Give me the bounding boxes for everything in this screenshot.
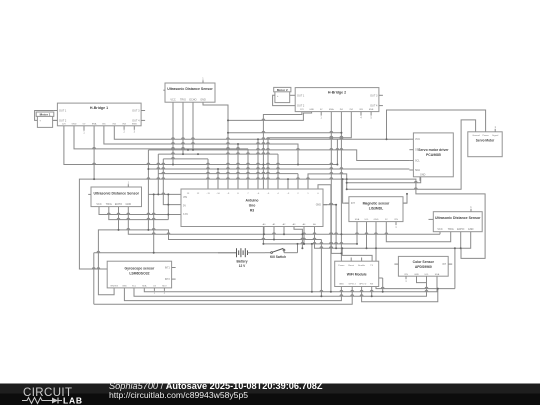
wire WiFi RX drop xyxy=(371,287,373,297)
svg-text:PCA9685: PCA9685 xyxy=(426,153,441,157)
svg-text:OUT 3: OUT 3 xyxy=(132,110,140,113)
svg-text:VCC: VCC xyxy=(96,203,101,206)
svg-text:GND: GND xyxy=(316,204,322,207)
wire H-Bridge 1 5V stub xyxy=(83,126,85,131)
svg-text:Reset: Reset xyxy=(348,264,354,267)
switch SW1 "Kill Switch" xyxy=(265,248,298,258)
svg-text:Ultrasonic Distance Sensor: Ultrasonic Distance Sensor xyxy=(435,216,481,220)
wire rail D13 net to servo SCL xyxy=(148,150,409,161)
wire battery minus rail xyxy=(94,252,237,254)
motor M2 "Motor 2" xyxy=(274,87,291,102)
wire servo power loop xyxy=(387,110,486,139)
wire color sensor GND SCL bridge xyxy=(417,276,427,282)
wire H-Bridge 1 ENB stub xyxy=(133,126,135,130)
wire magnetic VIN stub xyxy=(395,222,397,226)
wire ultrasonic top ECHO drop xyxy=(192,102,194,150)
svg-text:GPIO 0: GPIO 0 xyxy=(359,284,367,286)
wire pin1 staircase to servo GND xyxy=(308,174,347,189)
wire motor2 wrap to OUT2 xyxy=(273,95,296,105)
svg-text:APDS9960: APDS9960 xyxy=(415,265,432,269)
svg-text:VCC: VCC xyxy=(415,138,420,141)
wire WiFi TX riser xyxy=(342,248,372,261)
footer bar xyxy=(0,384,540,405)
svg-text:SDA: SDA xyxy=(415,169,420,172)
wire riser D7 xyxy=(247,149,249,189)
svg-text:GND: GND xyxy=(468,228,474,231)
wire Arduino VIN line xyxy=(148,193,181,195)
wire gyro SCL bus xyxy=(134,283,427,297)
ultrasonic distance sensor U8 (right) xyxy=(429,206,483,232)
wire riser D10 xyxy=(217,169,219,189)
wire ultrasonic right ECHO xyxy=(460,232,462,249)
svg-text:ENA: ENA xyxy=(329,108,334,111)
svg-text:ENA: ENA xyxy=(92,122,97,125)
svg-text:VIN: VIN xyxy=(183,196,187,199)
svg-text:LSM6DSO32: LSM6DSO32 xyxy=(129,272,149,276)
color sensor U11 APDS9960 xyxy=(394,256,452,283)
svg-text:VIN: VIN xyxy=(404,274,408,276)
svg-text:LAB: LAB xyxy=(63,396,83,405)
svg-text:VCC: VCC xyxy=(437,228,442,231)
wire A2 drop xyxy=(283,227,285,235)
microcontroller U6 Arduino Uno R3 xyxy=(181,189,327,227)
wire ultrasonic top TRIG drop xyxy=(182,102,184,154)
svg-text:Kill Switch: Kill Switch xyxy=(270,255,286,259)
H-bridge driver U3 "H-Bridge 2" xyxy=(295,88,383,120)
svg-text:INT1: INT1 xyxy=(165,267,171,269)
svg-text:Ground: Ground xyxy=(472,134,480,137)
wire vertical 168.3 xyxy=(167,194,169,219)
wire bottom rail outer xyxy=(94,287,352,305)
svg-text:Servo Motor: Servo Motor xyxy=(476,139,495,143)
svg-text:GND: GND xyxy=(72,123,77,125)
svg-text:ECHO: ECHO xyxy=(115,203,122,206)
wire A5 SCL drop xyxy=(315,227,471,249)
wire motor1 wrap to OUT1 xyxy=(35,111,54,121)
svg-text:SDA: SDA xyxy=(142,284,147,287)
H-bridge driver U2 "H-Bridge 1" xyxy=(53,103,145,126)
wire battery positive rail xyxy=(263,243,357,245)
wire H-Bridge 1 GND rail xyxy=(74,126,248,149)
wire SCL link riser xyxy=(320,240,322,297)
svg-text:OUT 4: OUT 4 xyxy=(370,105,378,108)
wire 12V riser to battery xyxy=(262,165,264,244)
svg-text:Color Sensor: Color Sensor xyxy=(413,260,435,264)
wire magnetic INT right loop xyxy=(403,194,407,203)
ultrasonic distance sensor U1 (top) xyxy=(163,78,215,103)
wire WiFi GPIO0 drop xyxy=(362,287,438,302)
svg-text:Arduino: Arduino xyxy=(246,199,259,203)
magnetic sensor U7 LIS3MDL xyxy=(345,197,407,222)
svg-text:SCL: SCL xyxy=(415,160,420,163)
wire hop bumps at crossings xyxy=(92,119,428,296)
svg-text:GND: GND xyxy=(122,285,127,287)
svg-text:ECHO: ECHO xyxy=(189,99,196,102)
wire ultrasonic top VCC drop xyxy=(172,102,174,164)
svg-text:SDA: SDA xyxy=(355,218,360,221)
svg-text:Magnetic sensor: Magnetic sensor xyxy=(363,202,390,206)
wire Arduino GND vertical xyxy=(335,205,337,249)
svg-text:OUT 1: OUT 1 xyxy=(59,110,67,113)
wire riser D5 rail to H-Bridge2 IN2 xyxy=(268,112,351,189)
wire A0 drop to ultrasonic right VCC xyxy=(263,227,265,235)
svg-text:Gyroscope sensor: Gyroscope sensor xyxy=(125,267,155,271)
svg-text:Enable: Enable xyxy=(358,265,366,267)
CircuitLab logo xyxy=(22,387,83,405)
svg-text:ENB: ENB xyxy=(132,123,137,125)
svg-text:SDA: SDA xyxy=(435,273,440,276)
wire rail 158.9 xyxy=(163,158,208,160)
battery B1 12V xyxy=(218,248,265,268)
svg-text:GND: GND xyxy=(414,274,419,276)
servo motor driver U4 PCA9685 xyxy=(409,133,453,181)
wire gyro VIN loop xyxy=(98,230,321,295)
svg-text:12 V: 12 V xyxy=(239,264,246,268)
wire magnetic INT riser xyxy=(343,179,349,203)
svg-text:LIS3MDL: LIS3MDL xyxy=(369,207,384,211)
ultrasonic distance sensor U5 (left) xyxy=(88,182,141,207)
wire Arduino 3.3V line from ultrasonic left VCC xyxy=(99,207,181,215)
svg-text:INT: INT xyxy=(351,202,355,205)
svg-text:TRIG: TRIG xyxy=(448,228,454,231)
wire rail D12 left riser xyxy=(157,154,159,194)
wire color sensor GND loop xyxy=(454,248,456,288)
svg-text:OUT 2: OUT 2 xyxy=(297,105,305,108)
wire vertical 148.4 xyxy=(147,150,149,230)
svg-text:TRIG: TRIG xyxy=(106,203,112,206)
wire ultrasonic left ECHO xyxy=(118,207,120,230)
wire H-Bridge 1 ENA drop xyxy=(93,126,95,179)
svg-text:12V: 12V xyxy=(62,123,66,125)
wire A1 drop xyxy=(273,227,275,240)
wire motor2 to OUT1 xyxy=(290,94,296,96)
wire ultrasonic right VCC riser xyxy=(439,232,441,235)
wire riser D2 xyxy=(297,174,299,189)
svg-text:3.3V: 3.3V xyxy=(183,213,188,216)
svg-text:H-Bridge 2: H-Bridge 2 xyxy=(328,91,346,95)
wire SDA link riser xyxy=(311,244,313,292)
wire gyro SDA bus xyxy=(144,276,437,292)
svg-text:OUT 4: OUT 4 xyxy=(132,119,140,122)
svg-text:Servo motor driver: Servo motor driver xyxy=(418,148,449,152)
wire motor1 to OUT2 xyxy=(53,119,58,121)
svg-text:VIN/3V3: VIN/3V3 xyxy=(110,285,119,287)
wire WiFi right stub drop xyxy=(382,278,384,292)
svg-text:GPIO 2: GPIO 2 xyxy=(349,284,357,286)
svg-text:Signal: Signal xyxy=(492,135,499,137)
svg-text:R3: R3 xyxy=(250,209,254,213)
wire H-Bridge 2 ENA drop xyxy=(331,112,341,254)
svg-text:http://circuitlab.com/c89943w5: http://circuitlab.com/c89943w58y5p5 xyxy=(109,390,248,400)
svg-text:Motor 2: Motor 2 xyxy=(277,88,288,92)
wire GND rail right segment xyxy=(376,222,455,289)
svg-text:OUT 1: OUT 1 xyxy=(297,94,305,97)
gyroscope sensor U9 LSM6DSO32 xyxy=(103,261,175,294)
svg-text:GND: GND xyxy=(309,109,314,111)
svg-text:VCC: VCC xyxy=(170,99,175,102)
wire riser D6 xyxy=(257,139,259,189)
wire ultrasonic left TRIG xyxy=(109,207,169,220)
wire A4 SDA drop xyxy=(303,227,305,244)
svg-text:Battery: Battery xyxy=(237,260,248,264)
svg-text:INT: INT xyxy=(442,264,446,266)
wire rail D10 to servo SDA xyxy=(148,168,409,170)
wire Arduino GND drop xyxy=(323,204,336,206)
wire riser D8 xyxy=(237,144,239,189)
wire H-Bridge 2 12V feed xyxy=(263,112,302,165)
svg-text:Ultrasonic Distance Sensor: Ultrasonic Distance Sensor xyxy=(167,87,213,91)
svg-text:H-Bridge 1: H-Bridge 1 xyxy=(90,106,108,110)
wire WiFi reset stub xyxy=(350,258,352,262)
wire H-Bridge 1 IN3 stub xyxy=(123,126,125,130)
svg-text:GND: GND xyxy=(374,219,379,221)
wire H-Bridge 1 IN2 to servo VCC xyxy=(114,126,409,139)
wire 12V rail from H-Bridge 1 xyxy=(64,126,338,165)
wire WiFi enable stub xyxy=(361,258,363,262)
wire A3 drop xyxy=(294,227,302,249)
motor M1 "Motor 1" xyxy=(36,112,54,127)
svg-text:RX: RX xyxy=(370,284,374,286)
svg-text:VIN: VIN xyxy=(394,219,398,221)
wire ultrasonic left GND xyxy=(128,207,440,235)
svg-text:Power: Power xyxy=(338,264,344,267)
footer text xyxy=(109,381,323,400)
wire magnetic SCL riser xyxy=(366,222,368,249)
wire riser D3 xyxy=(287,179,289,189)
wire bottom rail inner xyxy=(124,287,341,301)
wire Arduino 5V line xyxy=(163,159,181,205)
svg-text:ENB: ENB xyxy=(369,109,374,111)
svg-text:GND: GND xyxy=(126,203,132,206)
svg-text:Uno: Uno xyxy=(249,204,256,208)
wire kill switch riser xyxy=(297,244,299,253)
svg-text:ECHO: ECHO xyxy=(457,228,464,231)
wire battery negative riser xyxy=(153,194,155,252)
wire vertical 337.4 xyxy=(336,139,338,164)
servo motor M3 "Servo Motor" xyxy=(468,126,502,157)
wire ultrasonic top GND jog xyxy=(203,102,228,189)
svg-text:GND: GND xyxy=(200,99,206,102)
wire riser D9 rail to H-Bridge2 ENA xyxy=(228,132,341,134)
wire H-Bridge 2 IN1 drop to WiFi power xyxy=(340,112,342,262)
wire riser D4 xyxy=(277,154,279,189)
svg-text:Power: Power xyxy=(482,134,488,137)
svg-text:TRIG: TRIG xyxy=(180,99,186,102)
wire riser D11 xyxy=(207,159,209,189)
svg-text:WiFi Module: WiFi Module xyxy=(347,272,367,276)
svg-text:SDO: SDO xyxy=(162,285,167,287)
svg-text:OUT 2: OUT 2 xyxy=(59,119,67,122)
wire battery minus drop xyxy=(93,253,95,305)
svg-text:Ultrasonic Distance Sensor: Ultrasonic Distance Sensor xyxy=(93,191,139,195)
svg-text:Motor 1: Motor 1 xyxy=(40,113,51,117)
svg-text:GND: GND xyxy=(339,284,344,286)
wire ultrasonic right TRIG xyxy=(386,222,450,242)
svg-text:INT2: INT2 xyxy=(165,279,171,281)
wire gyro left pin C loop xyxy=(79,179,485,269)
wire rail D12 net xyxy=(158,153,278,155)
svg-text:GND: GND xyxy=(420,173,426,176)
wire servo GND stub line xyxy=(347,177,421,183)
wifi module U10 xyxy=(335,261,383,286)
svg-text:OUT 3: OUT 3 xyxy=(370,94,378,97)
svg-text:5V: 5V xyxy=(183,204,186,207)
wire H-Bridge 1 IN1 rail xyxy=(104,126,298,165)
wire GND link to H-Bridge 2 xyxy=(228,112,312,121)
wire magnetic SDA riser xyxy=(356,222,358,244)
svg-text:12V: 12V xyxy=(300,109,304,111)
wire servo ground loop xyxy=(347,120,476,189)
svg-text:OE: OE xyxy=(415,149,419,152)
wire pin0 drop to WiFi TX xyxy=(318,185,331,292)
wire rail D3 net xyxy=(158,173,298,175)
